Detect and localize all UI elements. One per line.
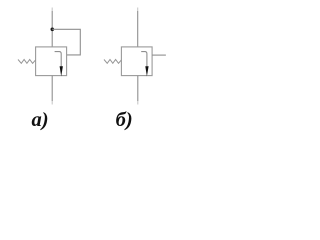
internal flow path hook of valve b [141, 52, 147, 67]
spring (zigzag) of valve a [18, 60, 36, 64]
svg-text:б): б) [116, 109, 133, 131]
wire: bottom port line of valve b [137, 76, 139, 101]
spring (zigzag) of valve b [104, 60, 121, 64]
wire: top port line of valve b [137, 8, 139, 12]
wire: external pilot stub on right of valve b [152, 54, 166, 56]
wire: top port line of valve a [51, 8, 53, 12]
node junction dot on pilot tap of valve a [51, 28, 55, 32]
arrowhead of flow path in valve a [60, 66, 63, 76]
arrowhead of flow path in valve b [145, 66, 148, 76]
svg-text:а): а) [32, 109, 49, 131]
valve body square of valve b [121, 47, 152, 76]
wire: pilot loop from junction to right side of valve a [52, 29, 80, 55]
internal flow path hook of valve a [55, 52, 62, 67]
valve body square of valve a [36, 47, 67, 76]
wire: bottom port line of valve a [51, 76, 53, 101]
